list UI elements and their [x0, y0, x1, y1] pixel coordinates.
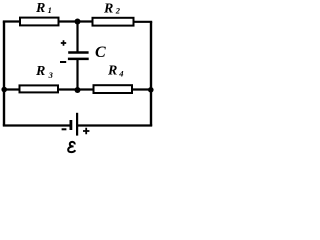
svg-text:2: 2 — [115, 5, 121, 15]
battery minus sign — [62, 128, 67, 130]
wire bottom-left segment — [3, 124, 70, 126]
wire middle-left segment — [3, 88, 20, 90]
svg-text:R: R — [35, 64, 45, 79]
wire middle-center segment — [57, 88, 94, 90]
capacitor plus sign — [61, 40, 66, 45]
svg-text:1: 1 — [48, 5, 52, 15]
resistor R3 — [20, 85, 59, 92]
resistor R4 — [94, 85, 133, 93]
svg-text:4: 4 — [118, 69, 123, 79]
resistor R1 — [20, 18, 59, 26]
wire right vertical — [150, 22, 152, 126]
battery negative short plate — [70, 120, 73, 130]
capacitor minus sign — [60, 61, 66, 63]
svg-text:3: 3 — [48, 70, 54, 80]
label EMF script E — [68, 142, 75, 152]
junction node left wire — [1, 87, 7, 93]
wire top-middle segment — [58, 20, 94, 22]
battery positive long plate — [76, 113, 78, 136]
resistor R2 — [93, 18, 134, 26]
svg-text:R: R — [107, 63, 117, 78]
junction node top (A) — [75, 19, 81, 25]
svg-text:C: C — [95, 44, 106, 61]
wire bottom-right segment — [78, 124, 152, 126]
wire middle-right segment — [132, 88, 153, 90]
capacitor C bottom plate — [68, 58, 89, 61]
svg-text:R: R — [103, 1, 113, 16]
battery plus sign — [83, 128, 89, 134]
wire top-right segment — [133, 21, 152, 23]
wire top-left segment — [3, 20, 21, 22]
wire capacitor branch lower — [76, 59, 78, 90]
wire capacitor branch upper — [76, 20, 78, 51]
wire left vertical — [3, 22, 5, 126]
junction node right wire — [148, 87, 154, 93]
svg-text:R: R — [35, 1, 45, 16]
capacitor C top plate — [68, 51, 88, 54]
junction node middle (B) — [75, 87, 81, 93]
